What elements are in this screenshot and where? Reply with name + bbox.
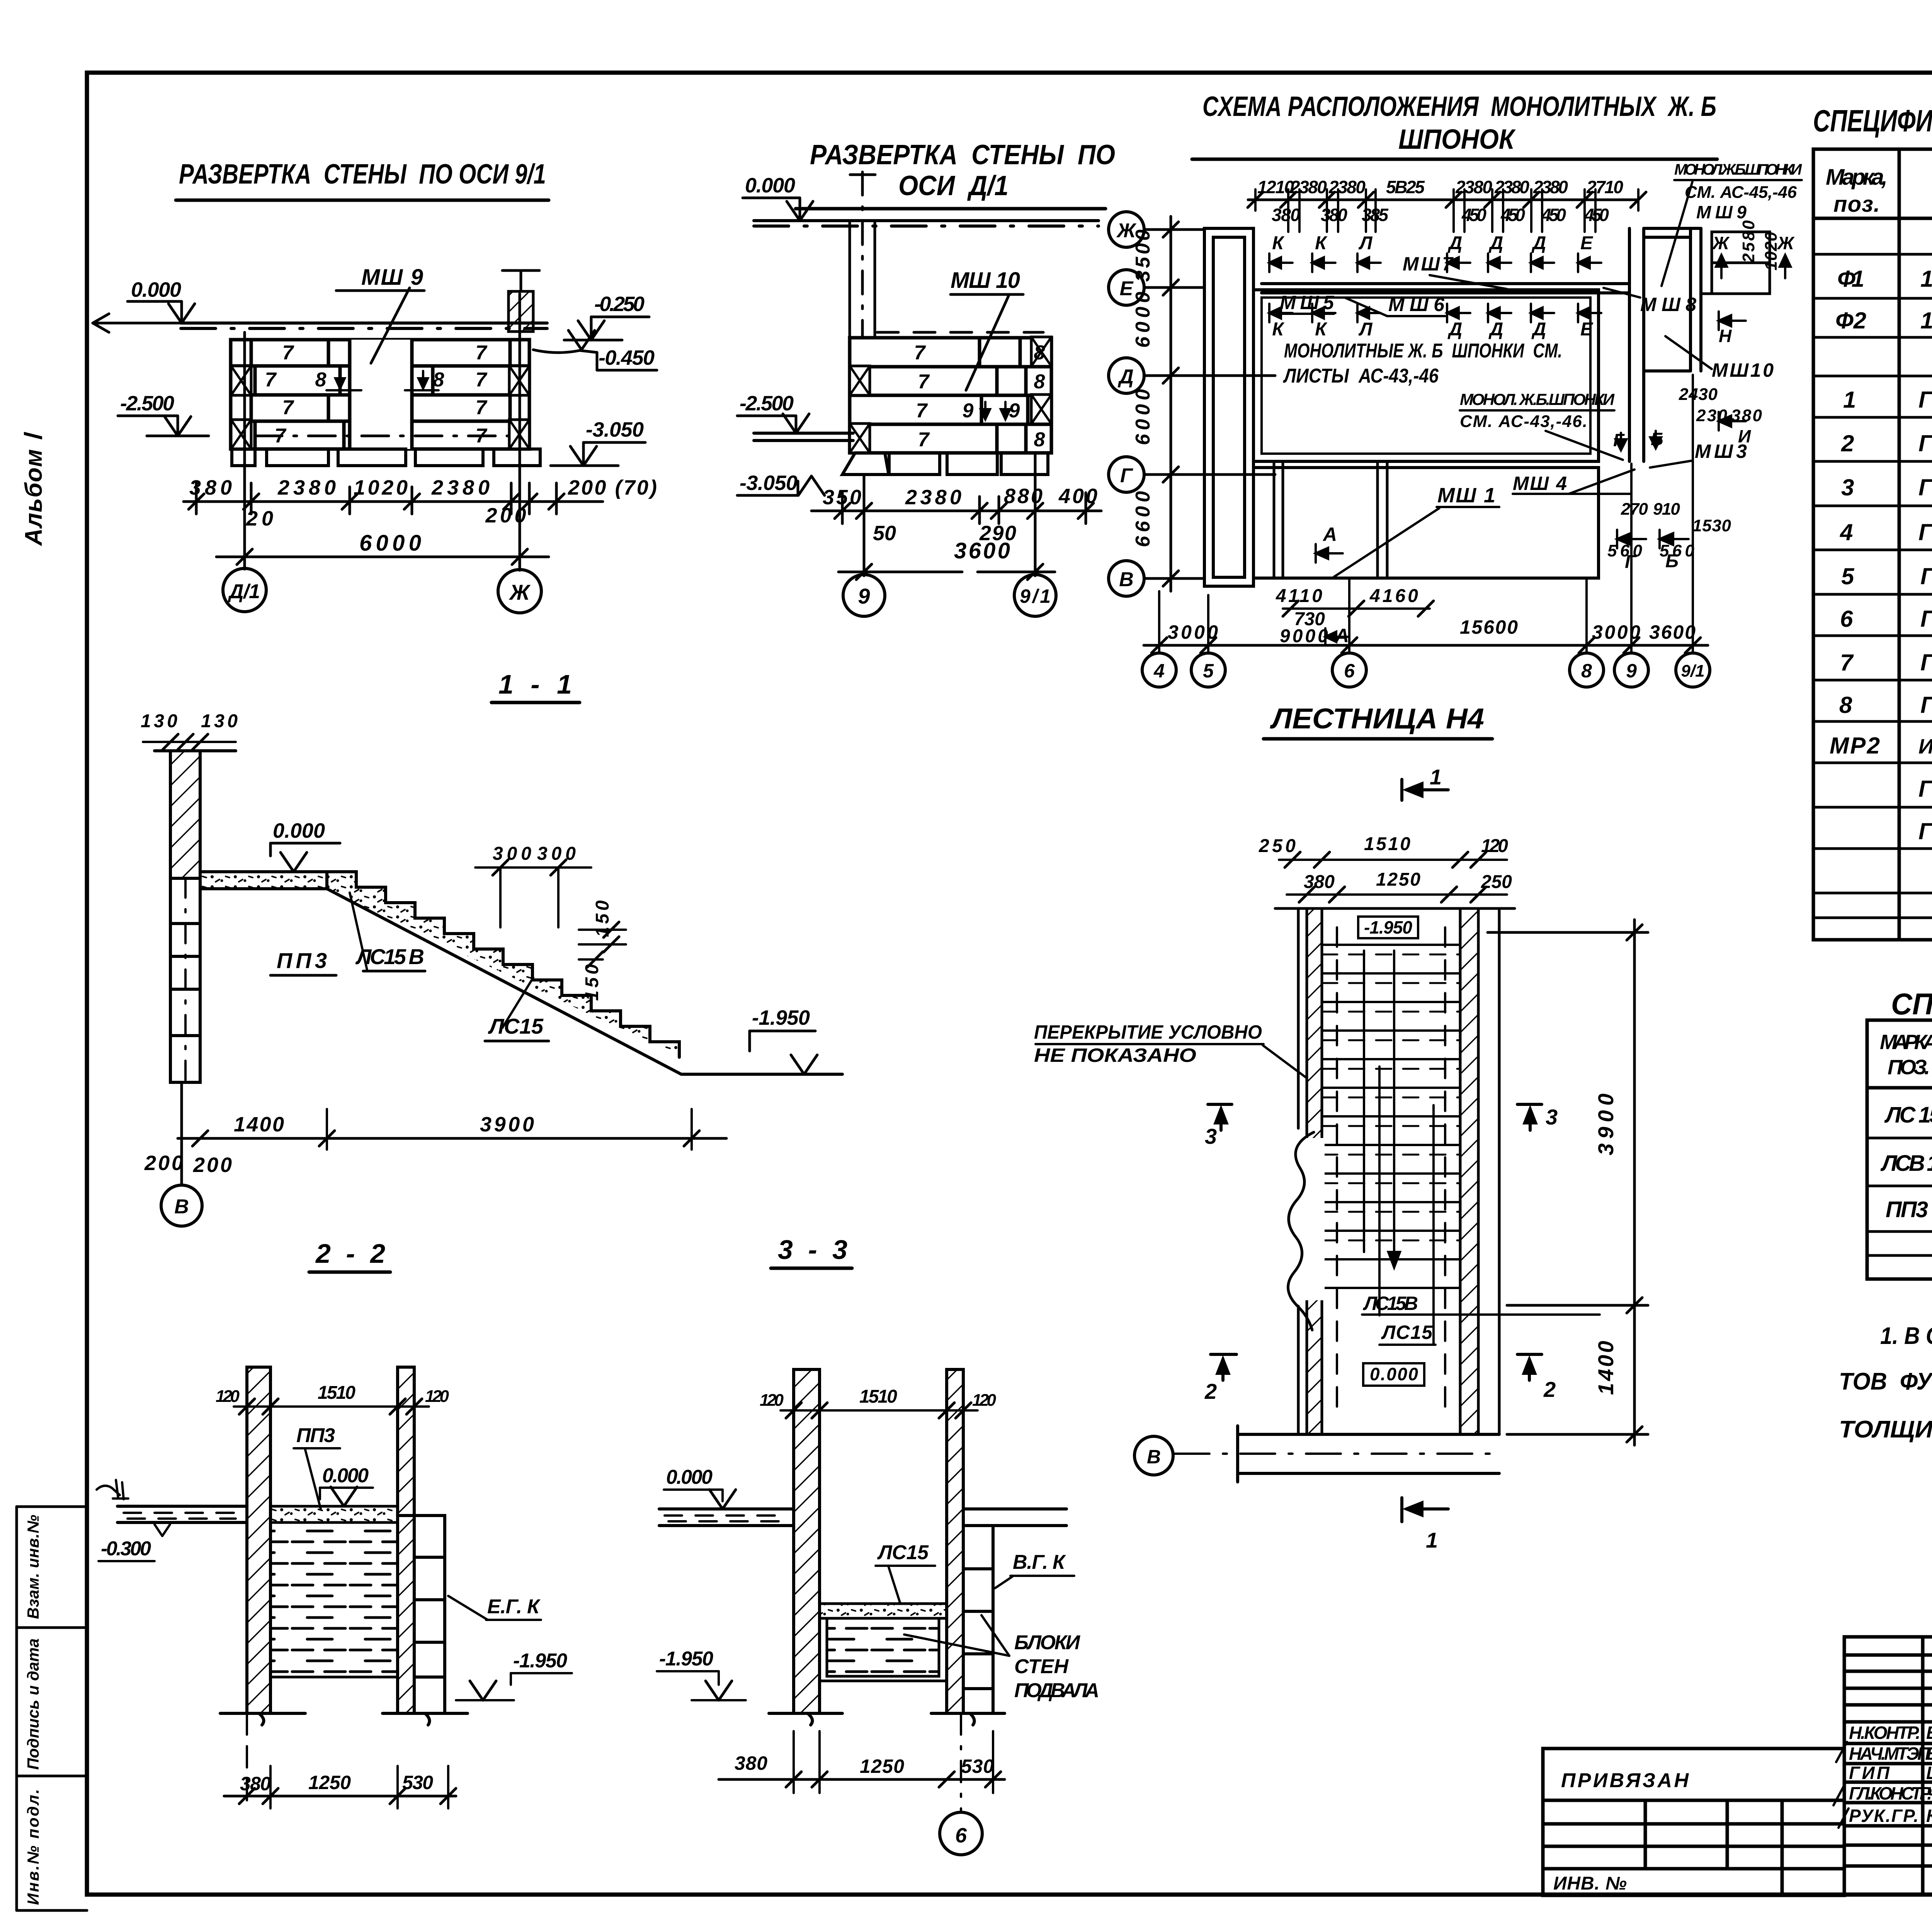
svg-text:НЕ ПОКАЗАНО: НЕ ПОКАЗАНО xyxy=(1034,1044,1196,1066)
svg-text:2380: 2380 xyxy=(1494,177,1529,197)
svg-text:СПЕЦИФИКАЦИЯ ЭЛЕМЕНТОВ К ЛЕСТН: СПЕЦИФИКАЦИЯ ЭЛЕМЕНТОВ К ЛЕСТНИЦЕ Н4 xyxy=(1891,987,1932,1021)
svg-text:ОСИ Д/1: ОСИ Д/1 xyxy=(898,170,1009,201)
G: right blocks column xyxy=(963,1526,993,1713)
svg-text:ЛС15: ЛС15 xyxy=(488,1014,544,1038)
A: dash-dot mid line of bottom row xyxy=(255,435,510,437)
svg-text:К: К xyxy=(1315,319,1328,340)
svg-text:КОЛУШЕВА: КОЛУШЕВА xyxy=(1926,1806,1932,1826)
svg-text:120: 120 xyxy=(425,1387,449,1406)
svg-text:1250: 1250 xyxy=(860,1755,904,1777)
svg-text:9: 9 xyxy=(1626,660,1637,682)
svg-text:0.000: 0.000 xyxy=(131,278,181,301)
svg-text:120: 120 xyxy=(760,1391,784,1410)
svg-text:450: 450 xyxy=(1541,205,1566,225)
G: top dim xyxy=(781,1409,978,1412)
svg-text:1400: 1400 xyxy=(234,1113,284,1136)
svg-text:СМ. АС-43,-46.: СМ. АС-43,-46. xyxy=(1460,412,1587,431)
svg-text:Ж: Ж xyxy=(1712,233,1730,253)
svg-text:РАЗВЕРТКА СТЕНЫ ПО ОСИ 9/1: РАЗВЕРТКА СТЕНЫ ПО ОСИ 9/1 xyxy=(179,159,546,190)
svg-text:7: 7 xyxy=(282,342,294,364)
table 2 grid xyxy=(1867,1020,1932,1279)
svg-text:2380: 2380 xyxy=(1328,177,1366,197)
svg-text:120: 120 xyxy=(216,1387,240,1406)
svg-text:2710: 2710 xyxy=(1586,177,1623,197)
svg-text:1250: 1250 xyxy=(308,1772,351,1793)
svg-text:ПЕРЕКРЫТИЕ УСЛОВНО: ПЕРЕКРЫТИЕ УСЛОВНО xyxy=(1034,1021,1262,1043)
svg-text:В: В xyxy=(1119,568,1134,591)
table 2 header xyxy=(1880,1031,1932,1079)
A: floor line with dash-dot xyxy=(181,323,547,328)
E: bottom section mark 1 xyxy=(1402,1498,1448,1522)
svg-text:3500: 3500 xyxy=(1132,230,1154,282)
svg-text:СПЕЦИФИКАЦИЯ К СХЕМЕ РАСПОЛОЖЕ: СПЕЦИФИКАЦИЯ К СХЕМЕ РАСПОЛОЖЕНИЯ ЭЛЕМЕН… xyxy=(1813,104,1932,138)
svg-text:3 - 3: 3 - 3 xyxy=(778,1235,847,1265)
svg-text:-1.950: -1.950 xyxy=(513,1650,567,1672)
svg-text:2 - 2: 2 - 2 xyxy=(315,1238,385,1269)
B: footing xyxy=(842,453,1048,475)
F: walls xyxy=(247,1367,270,1713)
svg-text:2380: 2380 xyxy=(1455,177,1492,197)
C: top dim chain xyxy=(1248,199,1638,201)
table 1 body text xyxy=(1830,225,1932,898)
upper thin rows (left part) xyxy=(1844,1653,1932,1657)
svg-text:ЛС15: ЛС15 xyxy=(1381,1322,1433,1343)
svg-text:8: 8 xyxy=(1839,692,1852,718)
joints xyxy=(978,338,981,367)
some vertical joints xyxy=(250,340,253,366)
svg-text:400: 400 xyxy=(1058,485,1097,508)
svg-text:ЛС15В: ЛС15В xyxy=(1363,1293,1418,1314)
E: top section mark 1 xyxy=(1402,779,1448,800)
svg-text:-1.950: -1.950 xyxy=(1364,917,1412,937)
svg-text:ШЕЛЕВИЛЯ: ШЕЛЕВИЛЯ xyxy=(1926,1763,1932,1783)
svg-text:3600: 3600 xyxy=(1649,621,1696,643)
svg-text:50: 50 xyxy=(873,522,896,545)
svg-text:8: 8 xyxy=(1581,660,1592,682)
B: left pilaster xyxy=(850,172,875,338)
svg-text:1: 1 xyxy=(1430,765,1442,789)
svg-text:поз.: поз. xyxy=(1833,192,1880,217)
svg-text:5: 5 xyxy=(1203,660,1214,682)
G: axis circle Б xyxy=(940,1812,982,1855)
svg-text:250: 250 xyxy=(1481,872,1512,892)
svg-text:0.000: 0.000 xyxy=(322,1465,369,1487)
E: -1.950 box xyxy=(1358,917,1418,938)
svg-text:ИНВ. №: ИНВ. № xyxy=(1553,1873,1627,1894)
axis circle Ж xyxy=(498,570,541,613)
svg-text:ГОСТ 8240 - 72: ГОСТ 8240 - 72 xyxy=(1918,776,1932,802)
svg-text:Н.КОНТР.: Н.КОНТР. xyxy=(1849,1723,1920,1743)
A: dimension chain 2 (6000) xyxy=(216,556,549,558)
svg-text:К: К xyxy=(1272,233,1285,253)
svg-text:ЛС 15: ЛС 15 xyxy=(1884,1102,1932,1128)
svg-text:Марка,: Марка, xyxy=(1826,165,1888,190)
C: lower room box xyxy=(1253,468,1599,578)
E: dashed wall edges xyxy=(1337,927,1445,1410)
svg-text:-0.250: -0.250 xyxy=(594,293,645,316)
svg-text:-2.500: -2.500 xyxy=(120,392,174,415)
svg-text:1020: 1020 xyxy=(354,476,408,499)
svg-text:Е.Г. К: Е.Г. К xyxy=(487,1596,541,1618)
svg-text:Е: Е xyxy=(1580,233,1594,253)
svg-text:ГОСТ 13 5 79 - 78: ГОСТ 13 5 79 - 78 xyxy=(1920,650,1932,675)
C: letter arrows upper row xyxy=(1272,233,1594,253)
svg-text:2430: 2430 xyxy=(1679,385,1718,404)
svg-text:380: 380 xyxy=(240,1773,271,1795)
A: top-right pilaster hatched xyxy=(509,291,533,332)
svg-text:7: 7 xyxy=(916,400,928,422)
svg-text:7: 7 xyxy=(275,425,287,447)
G: bottom dims xyxy=(719,1778,1005,1781)
svg-text:1.112-5 , вып. 2: 1.112-5 , вып. 2 xyxy=(1920,308,1932,333)
B: labels xyxy=(914,342,1045,451)
E: flight центр arrow xyxy=(1364,951,1400,1267)
svg-text:8: 8 xyxy=(1034,429,1045,451)
svg-text:БУХАРИНА: БУХАРИНА xyxy=(1926,1723,1932,1743)
svg-text:380: 380 xyxy=(1272,205,1300,225)
svg-text:Л: Л xyxy=(1359,233,1373,253)
B: wall blocks xyxy=(850,338,1051,453)
C: bottom axis circles xyxy=(1142,653,1710,687)
svg-text:8: 8 xyxy=(315,369,327,391)
svg-text:Е: Е xyxy=(1580,319,1594,340)
svg-text:1250: 1250 xyxy=(1376,869,1420,890)
svg-text:МШ 9: МШ 9 xyxy=(361,265,423,290)
D: 150 dims xyxy=(582,900,613,1001)
svg-text:ГОСТ 13579 - 78: ГОСТ 13579 - 78 xyxy=(1920,606,1932,632)
svg-text:ГИП: ГИП xyxy=(1849,1763,1890,1783)
left signature grid verticals xyxy=(1921,1637,1925,1895)
svg-text:ГОСТ 13579-78: ГОСТ 13579-78 xyxy=(1918,475,1932,500)
svg-text:Н: Н xyxy=(1719,326,1732,346)
svg-text:К: К xyxy=(1272,319,1285,340)
C: left axis circles xyxy=(1109,212,1144,596)
svg-text:СМ. АС-45,-46: СМ. АС-45,-46 xyxy=(1685,183,1797,202)
svg-text:МОНОЛИТНЫЕ Ж. Б ШПОНКИ СМ.: МОНОЛИТНЫЕ Ж. Б ШПОНКИ СМ. xyxy=(1284,340,1562,362)
svg-text:Подпись и дата: Подпись и дата xyxy=(24,1638,42,1770)
svg-text:БЕГАНСКАЯ: БЕГАНСКАЯ xyxy=(1926,1744,1932,1764)
svg-text:-1.950: -1.950 xyxy=(659,1648,713,1670)
svg-text:270: 270 xyxy=(1621,500,1648,519)
svg-text:Д: Д xyxy=(1447,233,1463,253)
svg-text:2: 2 xyxy=(1841,430,1854,456)
svg-text:2380: 2380 xyxy=(277,476,336,499)
svg-text:7: 7 xyxy=(476,369,488,391)
svg-text:ПОЗ.: ПОЗ. xyxy=(1888,1056,1930,1079)
D: top dims 130/130 xyxy=(141,711,238,731)
svg-text:1020: 1020 xyxy=(1762,231,1781,270)
F: top dim xyxy=(234,1405,429,1408)
F: pit dashed fill xyxy=(270,1522,398,1677)
A: X-boxes xyxy=(231,366,251,395)
svg-text:ГОСТ 13579 - 7 8: ГОСТ 13579 - 7 8 xyxy=(1920,692,1932,718)
svg-text:ГОСТ 13579-78: ГОСТ 13579-78 xyxy=(1918,387,1932,413)
svg-text:БЛОКИ: БЛОКИ xyxy=(1014,1631,1081,1654)
svg-text:ЛЕСТНИЦА Н4: ЛЕСТНИЦА Н4 xyxy=(1270,703,1484,735)
svg-text:Альбом Ⅰ: Альбом Ⅰ xyxy=(20,432,47,546)
D: bottom dims xyxy=(178,1137,726,1140)
svg-text:МОНОЛ. Ж.Б.ШПОНКИ: МОНОЛ. Ж.Б.ШПОНКИ xyxy=(1460,390,1615,408)
C: top band along axis E xyxy=(1262,284,1629,293)
svg-text:3000: 3000 xyxy=(1592,621,1640,643)
svg-text:350: 350 xyxy=(823,486,861,509)
svg-text:СХЕМА РАСПОЛОЖЕНИЯ МОНОЛИТНЫХ: СХЕМА РАСПОЛОЖЕНИЯ МОНОЛИТНЫХ Ж. Б xyxy=(1202,91,1716,122)
svg-text:120: 120 xyxy=(972,1391,997,1410)
svg-text:2380: 2380 xyxy=(1533,177,1568,197)
svg-text:Д/1: Д/1 xyxy=(228,580,260,603)
svg-text:200 (70): 200 (70) xyxy=(568,476,657,499)
svg-text:200: 200 xyxy=(193,1153,232,1177)
svg-text:3: 3 xyxy=(1841,475,1854,500)
svg-text:910: 910 xyxy=(1653,500,1680,519)
axis circle 9/1 xyxy=(1014,575,1056,616)
axis circle 9 xyxy=(843,575,885,616)
svg-text:РАЗВЕРТКА СТЕНЫ ПО: РАЗВЕРТКА СТЕНЫ ПО xyxy=(810,139,1115,170)
svg-text:380: 380 xyxy=(1321,205,1347,225)
svg-text:СТЕН: СТЕН xyxy=(1014,1655,1069,1678)
table 2 body xyxy=(1880,1102,1932,1222)
F: ground lines xyxy=(220,1713,468,1725)
svg-text:МШ10: МШ10 xyxy=(1712,359,1774,381)
C: middle big room box xyxy=(1253,290,1599,461)
svg-text:МР2: МР2 xyxy=(1830,733,1880,759)
svg-text:-2.500: -2.500 xyxy=(740,392,794,415)
C: axis drop lines xyxy=(1159,375,1693,653)
svg-text:2: 2 xyxy=(1543,1377,1556,1402)
svg-text:МШ 4: МШ 4 xyxy=(1513,473,1567,494)
svg-text:1510: 1510 xyxy=(1364,834,1410,854)
svg-text:-1.950: -1.950 xyxy=(752,1006,810,1029)
B: axes xyxy=(864,453,1035,576)
svg-text:4160: 4160 xyxy=(1369,586,1418,606)
svg-text:5: 5 xyxy=(1841,563,1855,589)
svg-text:7: 7 xyxy=(1840,650,1854,675)
svg-text:6: 6 xyxy=(1840,606,1853,632)
svg-text:0.000: 0.000 xyxy=(666,1466,713,1488)
C: left wing wall (double rect) xyxy=(1204,228,1253,586)
svg-text:ПП3: ПП3 xyxy=(296,1424,335,1447)
svg-text:ГЛ.КОНСТР.: ГЛ.КОНСТР. xyxy=(1849,1783,1932,1803)
svg-text:НАЧ.МТЭП: НАЧ.МТЭП xyxy=(1849,1744,1930,1764)
E: 0.000 box xyxy=(1363,1363,1424,1386)
D: 300,300 dims xyxy=(493,844,576,864)
svg-text:Д: Д xyxy=(1117,366,1134,388)
svg-text:130: 130 xyxy=(201,711,238,731)
svg-text:А: А xyxy=(1322,524,1337,545)
A: dashed level line -0.250 xyxy=(232,339,510,342)
C: bottom small dim 4110/4160 xyxy=(1283,607,1430,610)
svg-text:15600: 15600 xyxy=(1460,616,1518,638)
C: stairwell walls bottom-left xyxy=(1274,461,1387,578)
table 1 header xyxy=(1826,162,1932,218)
svg-text:Ф2: Ф2 xyxy=(1835,308,1866,333)
svg-text:380: 380 xyxy=(1731,406,1762,425)
svg-text:380: 380 xyxy=(1304,872,1335,892)
svg-text:1530: 1530 xyxy=(1692,516,1731,535)
svg-text:6: 6 xyxy=(1344,660,1355,682)
svg-text:7: 7 xyxy=(282,396,294,419)
svg-text:4: 4 xyxy=(1153,660,1165,682)
svg-text:Ф1: Ф1 xyxy=(1837,266,1864,292)
svg-text:560: 560 xyxy=(1660,541,1695,560)
G: left slab xyxy=(659,1509,794,1526)
svg-text:7: 7 xyxy=(476,396,488,419)
E: section marks 2 xyxy=(1211,1354,1542,1380)
svg-text:ПРИВЯЗАН: ПРИВЯЗАН xyxy=(1561,1769,1689,1792)
svg-text:-3.050: -3.050 xyxy=(740,471,798,495)
A: small down arrows near 8 xyxy=(327,371,439,390)
svg-text:1.112-5 , вып. 2: 1.112-5 , вып. 2 xyxy=(1920,266,1932,292)
signatures squiggles xyxy=(1833,1727,1932,1834)
svg-text:1510: 1510 xyxy=(318,1383,355,1403)
svg-text:560: 560 xyxy=(1607,541,1643,560)
C: letter arrows lower row xyxy=(1269,304,1601,322)
svg-text:3: 3 xyxy=(1546,1105,1558,1129)
svg-text:300: 300 xyxy=(493,844,531,864)
A: axis lines + circles xyxy=(245,294,520,570)
C: right vertical wall bands xyxy=(1629,228,1701,461)
svg-text:К: К xyxy=(1315,233,1328,253)
svg-text:ПП3: ПП3 xyxy=(1886,1197,1928,1222)
svg-text:230: 230 xyxy=(1696,406,1728,425)
svg-text:ГОСТ 13579 - 78: ГОСТ 13579 - 78 xyxy=(1920,563,1932,589)
A: block labels xyxy=(265,342,488,447)
svg-text:20: 20 xyxy=(246,507,273,530)
svg-text:МШ 10: МШ 10 xyxy=(951,268,1020,293)
svg-text:В: В xyxy=(174,1196,189,1218)
svg-text:9: 9 xyxy=(858,584,870,608)
svg-text:130: 130 xyxy=(141,711,177,731)
svg-text:Д: Д xyxy=(1488,233,1503,253)
F: bottom dims xyxy=(224,1795,456,1798)
E: bottom wall band xyxy=(1238,1426,1499,1482)
svg-text:2: 2 xyxy=(1204,1379,1217,1403)
svg-text:МШ6: МШ6 xyxy=(1388,294,1445,315)
svg-text:И: И xyxy=(1738,426,1751,446)
svg-text:ТОВ ФУНДАМЕНТОВ. В ГРАФЕ Ⅰ: ТОВ ФУНДАМЕНТОВ. В ГРАФЕ Ⅰ ДАНО КОЛИЧЕСТ… xyxy=(1839,1368,1932,1395)
G: mid slab speckled + plate below xyxy=(820,1604,947,1618)
C: top-right small boxes xyxy=(1701,232,1770,294)
svg-text:Л: Л xyxy=(1359,319,1373,340)
svg-text:200: 200 xyxy=(144,1152,183,1175)
svg-text:530: 530 xyxy=(402,1772,433,1793)
svg-text:880: 880 xyxy=(1004,485,1043,508)
svg-text:6000: 6000 xyxy=(1132,389,1154,445)
svg-text:МОНОЛ.Ж.Б.ШПОНКИ: МОНОЛ.Ж.Б.ШПОНКИ xyxy=(1674,161,1802,178)
svg-text:7: 7 xyxy=(918,429,930,451)
svg-text:7: 7 xyxy=(914,342,926,364)
svg-text:0.000: 0.000 xyxy=(1370,1364,1418,1384)
G: ground lines xyxy=(769,1713,1005,1725)
svg-text:ЛИСТЫ АС-43,-46: ЛИСТЫ АС-43,-46 xyxy=(1283,365,1439,387)
E: axis circle В xyxy=(1134,1436,1173,1475)
svg-text:6000: 6000 xyxy=(359,531,421,556)
B: dims xyxy=(811,493,1101,524)
svg-text:8: 8 xyxy=(1034,342,1045,364)
svg-text:ПОДВАЛА: ПОДВАЛА xyxy=(1014,1679,1099,1702)
svg-text:ГОСТ 13579-78: ГОСТ 13579-78 xyxy=(1918,430,1932,456)
svg-text:-0.450: -0.450 xyxy=(599,346,655,369)
E: right vertical dims xyxy=(1488,920,1648,1445)
D: steps speckle triangles xyxy=(327,872,679,1057)
table 1 grid xyxy=(1813,149,1932,940)
E: treads xyxy=(1322,945,1460,1288)
G: БЛОКИ СТЕН ПОДВАЛА xyxy=(1014,1631,1099,1702)
svg-text:-0.300: -0.300 xyxy=(101,1538,151,1560)
svg-text:МШ9: МШ9 xyxy=(1696,202,1747,222)
D: stairs steps xyxy=(327,872,681,1074)
svg-text:В.Г. К: В.Г. К xyxy=(1013,1551,1066,1573)
svg-text:МАРКА,: МАРКА, xyxy=(1880,1031,1932,1054)
svg-text:ИИ-03-03 АЛЬБОМ 71-64: ИИ-03-03 АЛЬБОМ 71-64 xyxy=(1918,735,1932,758)
svg-text:ПП3: ПП3 xyxy=(277,948,327,973)
svg-text:ЛС15: ЛС15 xyxy=(877,1541,929,1564)
svg-text:Г: Г xyxy=(1613,430,1625,450)
C: Н И arrows right xyxy=(1716,255,1791,430)
svg-text:3900: 3900 xyxy=(1594,1094,1618,1155)
E: break cloud on left wall xyxy=(1301,1138,1325,1300)
B: dashed level line xyxy=(877,331,1043,334)
svg-text:ГОСТ 13579-78: ГОСТ 13579-78 xyxy=(1918,519,1932,545)
svg-text:Д: Д xyxy=(1447,319,1463,340)
E: section marks 3 xyxy=(1208,1104,1542,1130)
G: walls xyxy=(794,1369,820,1713)
svg-text:ШПОНОК: ШПОНОК xyxy=(1398,124,1516,155)
svg-text:1: 1 xyxy=(1843,387,1856,413)
svg-text:7: 7 xyxy=(265,369,277,391)
A: wall outline xyxy=(231,340,529,449)
D: wall strip xyxy=(170,751,200,878)
C: axis leader lines xyxy=(1144,230,1275,578)
svg-text:МШ8: МШ8 xyxy=(1640,294,1696,315)
svg-text:6: 6 xyxy=(955,1824,967,1847)
svg-text:2380: 2380 xyxy=(431,476,490,499)
svg-text:Ж: Ж xyxy=(509,580,531,604)
C: bottom main dim line xyxy=(1144,644,1708,647)
svg-text:380: 380 xyxy=(735,1752,767,1774)
E: top dims xyxy=(1279,860,1507,895)
axis circle Д/1 xyxy=(223,568,266,612)
svg-text:6000: 6000 xyxy=(1132,292,1154,348)
svg-text:8: 8 xyxy=(433,369,444,391)
svg-text:8: 8 xyxy=(1034,371,1045,393)
svg-text:9: 9 xyxy=(963,400,974,422)
F: right blocks column xyxy=(414,1516,445,1713)
svg-text:2580: 2580 xyxy=(1739,220,1758,263)
svg-text:ТОЛЩИНЫ НАРУЖНЫХ СТЕН 510 М: ТОЛЩИНЫ НАРУЖНЫХ СТЕН 510 ММ, В ГРАФЕ Ⅱ … xyxy=(1839,1416,1932,1443)
svg-text:380: 380 xyxy=(189,476,232,499)
svg-text:1: 1 xyxy=(1426,1528,1438,1552)
svg-text:1510: 1510 xyxy=(859,1386,897,1407)
B: lower floor slab xyxy=(754,433,853,441)
svg-text:Д: Д xyxy=(1488,319,1503,340)
svg-text:2380: 2380 xyxy=(905,486,961,509)
svg-text:3000: 3000 xyxy=(1168,621,1218,643)
C: left vertical dim chain xyxy=(1170,216,1172,591)
svg-text:Д: Д xyxy=(1531,319,1546,340)
svg-text:530: 530 xyxy=(961,1755,994,1777)
svg-text:МШ7: МШ7 xyxy=(1403,253,1454,275)
C: right small dims xyxy=(1607,220,1781,560)
svg-text:1. В СПЕЦИФИКАЦИИ К СХЕМЕ Р: 1. В СПЕЦИФИКАЦИИ К СХЕМЕ РАСПОЛОЖЕНИЯ Э… xyxy=(1880,1323,1932,1349)
svg-text:РУК.ГР.: РУК.ГР. xyxy=(1849,1806,1918,1826)
svg-text:120: 120 xyxy=(1481,836,1508,856)
svg-text:5В25: 5В25 xyxy=(1386,177,1425,197)
doorway gap xyxy=(350,340,412,449)
left margin stamp boxes xyxy=(17,1507,87,1910)
svg-text:300: 300 xyxy=(537,844,576,864)
D: bottom landing line xyxy=(681,1073,842,1076)
